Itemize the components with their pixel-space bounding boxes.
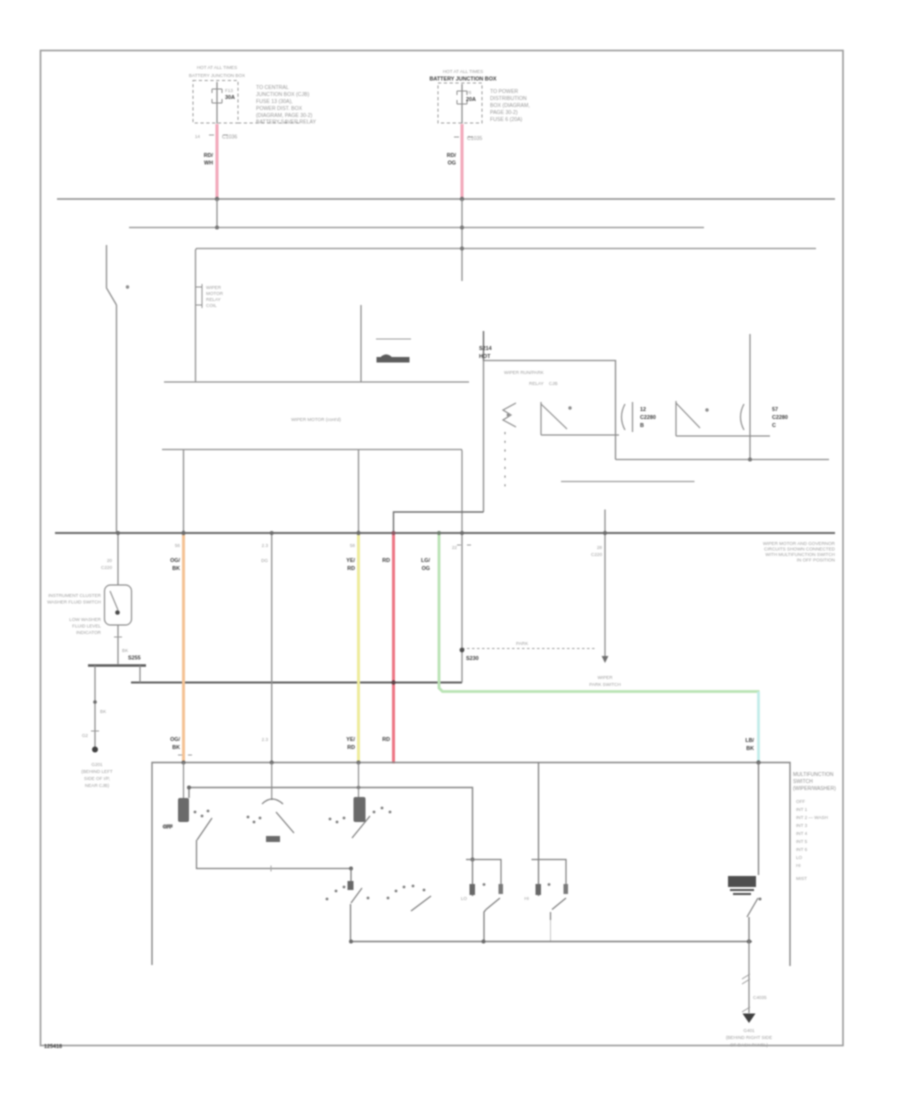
svg-text:PARK SWITCH: PARK SWITCH (589, 682, 621, 687)
relay feed stub (483, 331, 485, 361)
svg-text:INT 4: INT 4 (796, 831, 808, 836)
dashed junction box around fuse F13 (193, 81, 238, 124)
svg-text:B: B (640, 423, 644, 429)
svg-text:HI: HI (796, 863, 801, 868)
svg-text:HOT: HOT (479, 354, 491, 360)
junction dots on switch box top (182, 760, 761, 789)
ground distribution dark bus (131, 681, 462, 683)
feeder stubs into switch contacts (184, 763, 359, 801)
svg-text:FLUID LEVEL: FLUID LEVEL (72, 624, 101, 629)
svg-text:HOT AT ALL TIMES: HOT AT ALL TIMES (197, 65, 237, 70)
svg-text:C1035: C1035 (467, 136, 482, 142)
svg-text:BK: BK (122, 648, 129, 653)
svg-text:OFF: OFF (796, 799, 805, 804)
splice S230 on governor feed wire (452, 531, 479, 683)
pink wire from fuse F13 to line 1 (215, 124, 218, 199)
multifunction switch box outline (152, 763, 790, 967)
svg-text:WH: WH (204, 161, 213, 167)
svg-text:LO: LO (461, 896, 468, 901)
svg-text:FUSE 13 (30A),: FUSE 13 (30A), (256, 99, 293, 105)
svg-text:RD/: RD/ (204, 153, 214, 159)
red wire (wiper high) (382, 531, 395, 764)
svg-text:HOT AT ALL TIMES: HOT AT ALL TIMES (443, 69, 483, 74)
svg-text:COIL: COIL (206, 303, 217, 308)
connector C2 arc (741, 404, 745, 430)
svg-text:C220: C220 (101, 565, 112, 570)
svg-text:OG/: OG/ (170, 558, 180, 564)
relay box outline (484, 361, 616, 513)
svg-text:C2280: C2280 (772, 415, 788, 421)
svg-text:22: 22 (452, 545, 458, 550)
svg-text:C: C (772, 423, 776, 429)
splice left leg down to ground (94, 666, 96, 750)
svg-text:INT 5: INT 5 (796, 839, 808, 844)
junction dot at line 1 (215, 197, 219, 201)
relay armature dashed link (504, 432, 506, 492)
wiper motor symbol (376, 339, 411, 363)
svg-text:(BEHIND LEFT: (BEHIND LEFT (81, 769, 113, 774)
wire down from switch to connector bus (116, 305, 118, 533)
switch arm (107, 245, 117, 305)
wiper low contact gate (461, 858, 503, 942)
switch common bus (349, 939, 752, 943)
svg-text:INT 3: INT 3 (796, 823, 808, 828)
svg-text:LG/: LG/ (421, 558, 430, 564)
svg-text:SWITCH: SWITCH (793, 779, 813, 785)
svg-text:DG: DG (261, 558, 268, 563)
ignition switch contact top-left (107, 245, 130, 533)
svg-text:C2280: C2280 (640, 415, 656, 421)
wire segment from line 1 to line 2 (216, 199, 218, 228)
svg-text:WASHER FLUID SWITCH: WASHER FLUID SWITCH (47, 600, 101, 605)
svg-text:BK: BK (172, 745, 180, 751)
svg-text:RD: RD (347, 745, 355, 751)
splice right leg to ground bus (139, 666, 141, 683)
intermittent governor variable resistor (728, 763, 762, 942)
dashed junction box around fuse F6 (438, 83, 482, 123)
svg-text:PAGE 30-2): PAGE 30-2) (490, 110, 518, 116)
svg-text:OG/: OG/ (170, 737, 180, 743)
wire: horizontal feed line 1 (57, 198, 835, 200)
svg-text:WITH MULTIFUNCTION SWITCH: WITH MULTIFUNCTION SWITCH (765, 552, 835, 557)
svg-text:BATTERY SAVER RELAY: BATTERY SAVER RELAY (256, 120, 317, 126)
svg-text:BATTERY JUNCTION BOX: BATTERY JUNCTION BOX (430, 77, 497, 83)
svg-text:HI: HI (524, 896, 529, 901)
inner feed rail (189, 788, 473, 860)
motor box A bottom edge (164, 381, 469, 383)
svg-text:WIPER MOTOR (cont'd): WIPER MOTOR (cont'd) (291, 417, 341, 422)
wire from bus to cluster (117, 533, 119, 585)
svg-text:RD: RD (382, 558, 390, 564)
wiper relay box (479, 331, 656, 512)
instrument cluster branch (left) (47, 531, 146, 788)
svg-text:TO POWER: TO POWER (490, 89, 518, 95)
fuse F13 assembly (battery junction box, left) (189, 65, 317, 230)
svg-text:C1036: C1036 (222, 135, 237, 141)
svg-text:F6: F6 (466, 90, 472, 95)
svg-text:28: 28 (597, 545, 603, 550)
svg-text:INT 1: INT 1 (796, 807, 808, 812)
svg-text:IN OFF POSITION: IN OFF POSITION (797, 558, 835, 563)
rotary position contact 2 (intermittent) (387, 885, 431, 911)
svg-text:WIPER: WIPER (206, 285, 222, 290)
svg-text:BOX (DIAGRAM,: BOX (DIAGRAM, (490, 103, 530, 109)
rotary position contact 1 (intermittent) (326, 867, 370, 942)
svg-text:(WIPER/WASHER): (WIPER/WASHER) (793, 786, 836, 792)
svg-text:S255: S255 (128, 656, 141, 662)
svg-text:C220: C220 (591, 552, 602, 557)
svg-text:LO: LO (796, 855, 803, 860)
switch contact dot (126, 285, 129, 288)
main connector bus C2280 (55, 533, 836, 563)
svg-text:BK: BK (100, 709, 107, 714)
dashed linkage line (462, 648, 596, 650)
svg-text:INSTRUMENT CLUSTER: INSTRUMENT CLUSTER (48, 593, 101, 598)
run/park contact switch (right) (561, 334, 829, 482)
wiper high contact gate (524, 763, 568, 942)
relay output rail (616, 459, 830, 461)
fuse F13 element (216, 82, 218, 124)
wire from line 1 down through line 2 to stub (461, 199, 463, 281)
svg-text:BK: BK (172, 566, 180, 572)
wiper mode contact (fed by yellow wire) (329, 797, 392, 838)
svg-text:56: 56 (175, 543, 181, 548)
washer return contact (center) (247, 799, 294, 842)
svg-text:TO CENTRAL: TO CENTRAL (256, 85, 289, 91)
svg-text:RD/: RD/ (447, 153, 457, 159)
relay output wire to red feed (394, 512, 484, 533)
park switch sense wire with arrow (462, 510, 621, 688)
svg-text:MOTOR: MOTOR (206, 291, 224, 296)
svg-text:WIPER: WIPER (597, 675, 613, 680)
svg-text:OG: OG (422, 566, 430, 572)
svg-text:OG: OG (448, 161, 456, 167)
park sense pin label (591, 545, 602, 557)
svg-text:WIPER MOTOR AND GOVERNOR: WIPER MOTOR AND GOVERNOR (763, 541, 836, 546)
svg-text:20: 20 (107, 558, 113, 563)
svg-text:G201: G201 (91, 762, 103, 767)
wire through connector (749, 334, 751, 460)
svg-text:RD: RD (382, 737, 390, 743)
svg-text:G401: G401 (743, 1028, 755, 1033)
ground splice dot (92, 747, 98, 753)
svg-text:BATTERY JUNCTION BOX: BATTERY JUNCTION BOX (189, 73, 245, 78)
svg-text:(DIAGRAM, PAGE 30-2): (DIAGRAM, PAGE 30-2) (256, 113, 313, 119)
svg-text:OF DASH PANEL): OF DASH PANEL) (730, 1043, 768, 1048)
svg-text:MULTIFUNCTION: MULTIFUNCTION (793, 772, 834, 778)
green wire (governor feed) (421, 531, 759, 692)
svg-text:PARK: PARK (516, 641, 529, 646)
svg-text:FUSE 6 (20A): FUSE 6 (20A) (490, 117, 523, 123)
svg-text:LB/: LB/ (745, 738, 754, 744)
svg-text:LOW WASHER: LOW WASHER (69, 617, 101, 622)
svg-text:125418: 125418 (44, 1044, 62, 1050)
splice bar S255 (88, 664, 146, 666)
svg-text:INT 6: INT 6 (796, 847, 808, 852)
cluster module rounded box (105, 585, 132, 625)
svg-text:20A: 20A (466, 97, 476, 103)
connector C1036 ticks and label (209, 134, 228, 136)
svg-text:MIST: MIST (796, 876, 807, 881)
svg-text:SIDE OF I/P,: SIDE OF I/P, (84, 776, 110, 781)
yellow wire (wiper low) (346, 450, 360, 763)
ground symbol (743, 1014, 756, 1024)
svg-text:(BEHIND RIGHT SIDE: (BEHIND RIGHT SIDE (726, 1035, 772, 1040)
svg-text:DISTRIBUTION: DISTRIBUTION (490, 96, 527, 102)
svg-text:C4035: C4035 (753, 995, 767, 1000)
svg-text:JUNCTION BOX (CJB): JUNCTION BOX (CJB) (256, 92, 310, 98)
svg-text:S230: S230 (466, 656, 479, 662)
pink wire from fuse F6 to line 1 (460, 124, 463, 199)
svg-text:30A: 30A (225, 95, 235, 101)
svg-text:2.3: 2.3 (262, 737, 269, 742)
ground wire to G401 (726, 942, 772, 1048)
relay coil (503, 403, 516, 427)
svg-text:S214: S214 (479, 346, 492, 352)
svg-text:12: 12 (640, 407, 646, 413)
svg-text:NEAR CJB): NEAR CJB) (85, 783, 110, 788)
svg-text:BK: BK (746, 746, 754, 752)
gray wire (washer return) (261, 531, 274, 763)
svg-text:CIRCUITS SHOWN CONNECTED: CIRCUITS SHOWN CONNECTED (764, 547, 836, 552)
junction dot at line 1 (460, 197, 464, 201)
svg-text:POWER DIST. BOX: POWER DIST. BOX (256, 106, 303, 112)
svg-text:OFF: OFF (163, 824, 172, 829)
svg-text:WIPER RUN/PARK: WIPER RUN/PARK (504, 370, 545, 375)
wire below cluster (117, 625, 119, 664)
svg-text:INDICATOR: INDICATOR (76, 630, 102, 635)
svg-text:58: 58 (350, 543, 356, 548)
wire from park switch to box A bottom (360, 305, 362, 382)
cyan wire drop to multifunction switch (745, 692, 758, 763)
svg-text:14: 14 (195, 134, 201, 139)
orange wire (washer pump feed) (170, 450, 192, 763)
wire: horizontal feed line 2 (129, 227, 704, 229)
svg-text:RELAY: RELAY (206, 297, 221, 302)
svg-text:YE/: YE/ (346, 737, 355, 743)
svg-text:G2: G2 (82, 733, 89, 738)
washer switch contact (fed by orange wire) (163, 798, 351, 872)
connector C1036 ticks and label (454, 136, 473, 138)
relay contact switch (541, 402, 567, 435)
svg-text:YE/: YE/ (346, 558, 355, 564)
svg-text:F13: F13 (225, 88, 233, 93)
park return rail (561, 481, 695, 483)
svg-text:INT 2 — WASH: INT 2 — WASH (796, 815, 828, 820)
wiper governor box B top edge (162, 450, 462, 534)
svg-text:2.3: 2.3 (262, 543, 269, 548)
fuse F6 element (461, 84, 463, 124)
motor box A pin connector and label (196, 284, 224, 308)
connector C248 at relay output (622, 404, 626, 430)
svg-text:57: 57 (772, 407, 778, 413)
multifunction switch label block (793, 772, 836, 881)
svg-text:RELAY CJB: RELAY CJB (529, 381, 558, 386)
fuse F6 assembly (right) (430, 69, 530, 281)
svg-text:RD: RD (347, 566, 355, 572)
motor box A top edge (196, 249, 817, 383)
